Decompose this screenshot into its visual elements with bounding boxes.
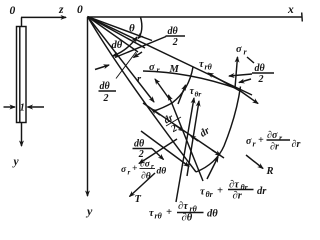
leader to outer arc face bbox=[207, 157, 218, 179]
svg-text:y: y bbox=[85, 204, 93, 218]
tau_r-theta+ arrow on lower face bbox=[141, 131, 189, 167]
bar bottom arrow bbox=[21, 123, 23, 147]
T axis arrow bbox=[130, 173, 156, 197]
d-theta arc arrow bbox=[113, 37, 138, 56]
thickness arrow left bbox=[4, 106, 16, 108]
sigma_r+ stress arrow (outer face) bbox=[239, 90, 258, 104]
svg-text:τ: τ bbox=[199, 59, 204, 70]
dim arrowhead outer (dr) bbox=[212, 150, 221, 156]
svg-text:σ: σ bbox=[149, 62, 155, 73]
svg-text:rθ: rθ bbox=[205, 63, 213, 72]
svg-text:τ: τ bbox=[149, 208, 154, 219]
svg-text:∂θ: ∂θ bbox=[141, 172, 151, 182]
second right d-theta/2 leader bbox=[239, 79, 251, 83]
dim arrowhead mid-in bbox=[191, 136, 199, 142]
svg-text:R: R bbox=[266, 166, 274, 177]
svg-text:1: 1 bbox=[20, 103, 25, 114]
svg-text:∂r: ∂r bbox=[270, 142, 279, 153]
R axis arrow bbox=[246, 155, 263, 169]
x axis end tick bbox=[301, 13, 304, 22]
svg-text:dr: dr bbox=[198, 125, 213, 140]
svg-text:z: z bbox=[58, 4, 64, 16]
sigma_r+ label bbox=[246, 130, 300, 153]
svg-text:θ: θ bbox=[129, 23, 135, 35]
dim arrowhead inner (dr/2) bbox=[152, 109, 161, 115]
svg-text:σ: σ bbox=[121, 165, 127, 175]
svg-text:r: r bbox=[157, 66, 161, 75]
ray b bbox=[88, 17, 146, 49]
svg-text:dr: dr bbox=[257, 186, 267, 197]
svg-text:0: 0 bbox=[77, 4, 83, 16]
svg-text:σ: σ bbox=[236, 44, 242, 55]
left d-theta/2 fraction bbox=[100, 81, 111, 104]
ray R1a (theta ray) bbox=[88, 17, 153, 41]
tau_theta-r+ label bbox=[200, 180, 267, 202]
ray R2 upper face of element bbox=[88, 17, 253, 96]
svg-text:2: 2 bbox=[258, 74, 264, 85]
theta arc arrow bbox=[138, 17, 142, 39]
svg-text:r: r bbox=[279, 134, 283, 143]
long leader joining the two d-theta/2 fractions bbox=[115, 37, 166, 58]
thin bar (plate) bbox=[17, 27, 27, 123]
bar stem bbox=[21, 17, 23, 26]
sigma_r stress arrow bbox=[155, 79, 170, 100]
bottom d-theta/2 fraction bbox=[134, 139, 145, 161]
bottom d-theta/2 leader bbox=[152, 149, 164, 160]
svg-text:r: r bbox=[137, 74, 142, 85]
svg-text:2: 2 bbox=[169, 123, 180, 136]
svg-text:dθ: dθ bbox=[207, 209, 218, 220]
svg-text:σ: σ bbox=[246, 136, 252, 147]
svg-text:θr: θr bbox=[195, 90, 202, 99]
steep leader a (to tau_theta-r+ label) bbox=[187, 101, 199, 176]
svg-text:+: + bbox=[258, 135, 264, 146]
svg-text:∂r: ∂r bbox=[233, 191, 243, 202]
outer arc of element bbox=[196, 87, 241, 173]
sigma_theta+ stress arrow (lower face) bbox=[139, 139, 177, 164]
inner arc of element bbox=[154, 67, 193, 111]
svg-text:x: x bbox=[287, 4, 294, 16]
right d-theta/2 fraction bbox=[255, 63, 266, 85]
ray R5 lower face of element bbox=[88, 17, 197, 173]
svg-text:r: r bbox=[151, 163, 154, 171]
tau_r-theta arrow bbox=[208, 73, 240, 91]
dr/2 label (rotated fraction) bbox=[162, 112, 181, 136]
upper face flat line bbox=[143, 71, 237, 89]
dr label (rotated) bbox=[198, 125, 213, 140]
dim arrowhead mid-out bbox=[175, 125, 184, 131]
sigma_r label bbox=[149, 62, 161, 75]
svg-text:θr: θr bbox=[206, 190, 214, 199]
sigma_theta+ label bbox=[121, 160, 166, 182]
svg-text:r: r bbox=[244, 48, 248, 57]
svg-text:∂θ: ∂θ bbox=[182, 213, 193, 224]
svg-text:∂σ: ∂σ bbox=[140, 160, 151, 170]
sigma_theta label bbox=[236, 44, 248, 57]
svg-text:2: 2 bbox=[138, 149, 144, 160]
bar inner line bbox=[19, 27, 21, 122]
tau_r-theta+ label bbox=[149, 201, 218, 224]
tau_theta-r label bbox=[190, 86, 202, 99]
svg-text:+: + bbox=[166, 207, 172, 218]
y axis bbox=[87, 17, 89, 196]
tau_r-theta label bbox=[199, 59, 213, 72]
svg-text:2: 2 bbox=[172, 37, 178, 48]
svg-text:∂r: ∂r bbox=[292, 139, 301, 150]
svg-text:dθ: dθ bbox=[157, 167, 167, 177]
svg-text:2: 2 bbox=[103, 93, 109, 104]
right d-theta/2 leader bbox=[229, 74, 252, 76]
sigma_theta arrow (upper face) bbox=[235, 57, 238, 88]
svg-text:0: 0 bbox=[10, 5, 16, 17]
mid leader arrowhead bbox=[134, 52, 143, 58]
svg-text:+: + bbox=[217, 186, 223, 197]
svg-text:y: y bbox=[12, 156, 20, 168]
svg-text:∂τ: ∂τ bbox=[178, 201, 188, 212]
ray R3 thin bisector start bbox=[88, 17, 139, 53]
tau_theta-r arrow bbox=[178, 85, 186, 104]
top d-theta/2 fraction bbox=[168, 26, 179, 48]
svg-text:T: T bbox=[135, 194, 142, 205]
leader c bbox=[169, 95, 204, 181]
ray R4 r-dimension line bbox=[88, 17, 155, 103]
svg-text:τ: τ bbox=[200, 187, 205, 198]
x axis bbox=[88, 16, 303, 18]
svg-text:r: r bbox=[128, 169, 131, 177]
svg-text:r: r bbox=[253, 140, 257, 149]
svg-text:+: + bbox=[132, 164, 137, 174]
steep leader b (to tau_r-theta+ label) bbox=[176, 98, 194, 202]
small tick above right fraction bbox=[247, 57, 254, 63]
small left arrow pointing at fan bbox=[95, 65, 109, 70]
bisector dimension backbone bbox=[143, 103, 224, 158]
thickness arrow right bbox=[28, 106, 45, 108]
svg-text:dθ: dθ bbox=[112, 40, 123, 51]
left d-theta/2 leader bbox=[116, 52, 136, 79]
z axis bbox=[21, 16, 66, 18]
svg-text:M: M bbox=[169, 64, 180, 75]
svg-text:rθ: rθ bbox=[155, 212, 163, 221]
